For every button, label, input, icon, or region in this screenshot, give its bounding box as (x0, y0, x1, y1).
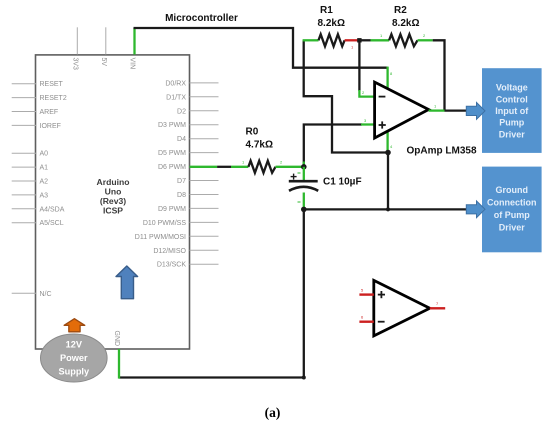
arrow into Ground box (466, 201, 485, 218)
wire R2 left green lead (371, 39, 390, 41)
wire plus input from node (304, 125, 362, 167)
svg-text:Supply: Supply (58, 367, 90, 377)
svg-text:D10 PWM/SS: D10 PWM/SS (143, 220, 187, 227)
svg-text:A2: A2 (40, 179, 49, 186)
left pin stubs (12, 84, 36, 294)
wire R0 left green lead (231, 166, 248, 168)
wire black mid segment (217, 166, 231, 168)
svg-text:Arduino: Arduino (97, 177, 130, 187)
svg-text:D13/SCK: D13/SCK (157, 262, 187, 269)
wire output to arrow (445, 109, 470, 111)
right pin stubs (190, 83, 219, 264)
right pin labels (135, 80, 187, 268)
svg-text:D7: D7 (177, 178, 186, 185)
svg-text:Power: Power (60, 353, 88, 363)
svg-text:D0/RX: D0/RX (165, 80, 186, 87)
callout box Ground Connection (482, 167, 542, 253)
Arduino U1 label (97, 177, 130, 216)
node corner dot (302, 376, 306, 380)
svg-text:Driver: Driver (499, 129, 526, 139)
wire op-amp V- green pin (386, 131, 388, 153)
svg-text:D6 PWM: D6 PWM (158, 164, 186, 171)
12V power supply ellipse (41, 334, 108, 382)
wire R1 branch from corner down (left vertical) (304, 40, 388, 152)
svg-text:Connection: Connection (487, 198, 537, 208)
svg-text:Control: Control (496, 94, 528, 104)
wire D6 PWM green from board (190, 166, 218, 168)
wire ground down to GND rail (119, 209, 304, 377)
Arduino U1 board outline (36, 55, 190, 349)
svg-text:Pump: Pump (499, 118, 525, 128)
capacitor C1 top plate (289, 180, 318, 183)
wire R1 left green lead (303, 39, 319, 41)
svg-text:C1 10µF: C1 10µF (323, 177, 362, 188)
svg-text:3V3: 3V3 (71, 58, 78, 71)
label R0 value (246, 127, 273, 151)
svg-text:12V: 12V (66, 340, 83, 350)
tiny green mark top lead (298, 172, 301, 174)
svg-text:AREF: AREF (40, 109, 59, 116)
op-amp plus glyph (379, 121, 386, 128)
svg-text:5V: 5V (100, 58, 107, 67)
svg-text:Driver: Driver (499, 223, 526, 233)
svg-text:Voltage: Voltage (496, 83, 528, 93)
capacitor C1 top lead (303, 167, 305, 181)
wire Microcontroller net: VIN to V+ (134, 28, 388, 68)
svg-text:Input of: Input of (495, 106, 529, 116)
op-amp U3 plus glyph (378, 291, 385, 298)
svg-text:D3 PWM: D3 PWM (158, 122, 186, 129)
wire R2 right green lead (418, 39, 433, 41)
svg-text:Microcontroller: Microcontroller (165, 13, 238, 24)
wire node to R2 (359, 39, 370, 41)
svg-text:R1: R1 (320, 5, 333, 16)
svg-text:D9 PWM: D9 PWM (158, 206, 186, 213)
op-amp U3 minus glyph (378, 321, 385, 323)
wire ground run C1 to arrow (304, 208, 470, 210)
svg-text:Ground: Ground (496, 185, 529, 195)
resistor R1 (319, 34, 345, 46)
svg-text:IOREF: IOREF (40, 123, 61, 130)
blue up arrow inside board (116, 266, 138, 299)
svg-text:A0: A0 (40, 151, 49, 158)
svg-text:8.2kΩ: 8.2kΩ (392, 18, 419, 29)
svg-text:OpAmp LM358: OpAmp LM358 (407, 146, 477, 157)
svg-text:D5 PWM: D5 PWM (158, 150, 186, 157)
svg-text:D2: D2 (177, 108, 186, 115)
callout box Voltage Control (482, 68, 542, 153)
op-amp U3 output red stub (430, 307, 445, 309)
top pin stubs 3V3 5V (77, 27, 106, 54)
svg-text:(a): (a) (265, 405, 281, 420)
op-amp minus glyph (379, 96, 386, 98)
wire red segment R1 to node (345, 39, 360, 41)
wire node to minus input (358, 40, 360, 91)
svg-text:RESET2: RESET2 (40, 95, 67, 102)
wire R2 to output vertical (433, 40, 445, 110)
op-amp U3 plus input red stub (359, 293, 373, 295)
svg-text:ICSP: ICSP (103, 206, 123, 216)
wire V- down to ground run (387, 153, 389, 210)
svg-text:VIN: VIN (129, 58, 136, 70)
svg-text:8.2kΩ: 8.2kΩ (318, 18, 345, 29)
resistor R0 (248, 161, 275, 173)
svg-text:D1/TX: D1/TX (166, 94, 186, 101)
arrow into Voltage box (466, 103, 485, 120)
node small ground T (386, 207, 390, 211)
svg-text:GND: GND (113, 331, 120, 347)
svg-text:4.7kΩ: 4.7kΩ (246, 140, 273, 151)
wire green to plus input (361, 123, 375, 125)
svg-text:R0: R0 (246, 127, 259, 138)
capacitor C1 bottom curved plate (289, 187, 318, 191)
label R1 value (318, 5, 345, 29)
svg-text:N/C: N/C (40, 291, 52, 298)
wire op-amp V+ green pin (386, 67, 388, 89)
svg-text:A5/SCL: A5/SCL (40, 220, 64, 227)
node ground junction under C1 (301, 207, 307, 213)
left pin labels (40, 81, 67, 298)
op-amp U3 minus input red stub (359, 321, 373, 323)
svg-text:A4/SDA: A4/SDA (40, 206, 65, 213)
resistor R2 (389, 34, 417, 46)
wire green above node A (303, 162, 305, 168)
wire R0 right green lead (276, 166, 304, 168)
svg-text:R2: R2 (394, 5, 407, 16)
svg-text:Uno: Uno (105, 187, 122, 197)
svg-text:D11 PWM/MOSI: D11 PWM/MOSI (135, 234, 186, 241)
orange up arrow 12V into board (64, 319, 85, 332)
node A junction R0/C1/plus (301, 164, 307, 170)
wire GND green pin (118, 349, 120, 379)
capacitor C1 bottom lead green (303, 193, 305, 210)
wire op-amp output green (429, 109, 445, 111)
op-amp U3 unconnected triangle (374, 280, 430, 336)
label R2 value (392, 5, 419, 29)
wire VIN green vertical (133, 28, 135, 55)
node junction R1/R2/minus (357, 38, 361, 42)
tiny green mark bottom lead (298, 201, 301, 203)
svg-text:D8: D8 (177, 192, 186, 199)
top pin labels rotated (71, 58, 135, 347)
svg-text:of Pump: of Pump (494, 210, 530, 220)
wire green to minus input (359, 90, 374, 97)
node V- junction (385, 150, 391, 156)
op-amp U1 LM358 triangle (375, 82, 429, 138)
svg-text:RESET: RESET (40, 81, 64, 88)
svg-text:D4: D4 (177, 136, 186, 143)
svg-text:(Rev3): (Rev3) (100, 196, 126, 206)
svg-text:A3: A3 (40, 192, 49, 199)
svg-text:A1: A1 (40, 165, 49, 172)
capacitor C1 plus sign (291, 174, 297, 180)
svg-text:D12/MISO: D12/MISO (153, 248, 186, 255)
